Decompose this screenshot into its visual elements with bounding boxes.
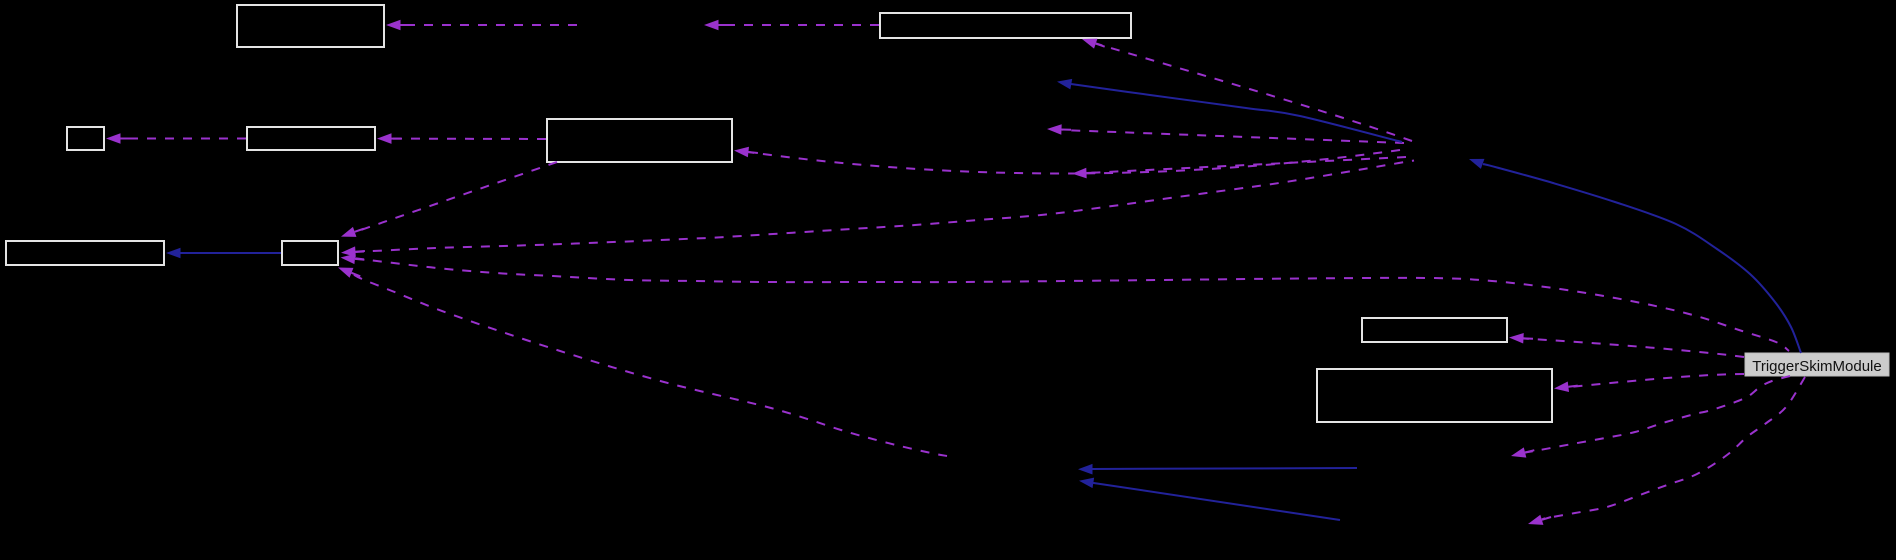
edge TSM to node6 (dashed) — [1510, 376, 1790, 461]
node G box — [282, 241, 338, 265]
edge E to G (dashed) — [339, 162, 557, 242]
node F box — [6, 241, 164, 265]
node I box — [1317, 369, 1552, 422]
edge D to C (dashed) — [106, 133, 246, 144]
edge TSM to hub (blue) — [1467, 154, 1801, 353]
node A box — [237, 5, 384, 47]
edge TSM to H (dashed) — [1509, 332, 1744, 357]
edge node10 to node9 (blue) — [1078, 475, 1340, 520]
edge B to node1 (dashed) — [704, 20, 879, 31]
edge node8 to node9 (blue) — [1078, 464, 1357, 475]
node D box — [247, 127, 375, 150]
edge hub to node2 (blue) — [1056, 76, 1402, 142]
edge hub to E (dashed) — [733, 145, 1400, 173]
edge TSM to G long (dashed) — [340, 252, 1789, 351]
edge TSM to node7 (dashed) — [1526, 377, 1805, 529]
edge E to D (dashed) — [377, 133, 546, 144]
edge hub to node4 (dashed) — [1072, 157, 1406, 179]
edge hub to B (dashed) — [1080, 34, 1412, 141]
node E box — [547, 119, 732, 162]
node TriggerSkimModule — [1745, 353, 1889, 376]
edge hub to G (dashed) — [341, 161, 1414, 258]
node H box — [1362, 318, 1507, 342]
edge node1 to A (dashed) — [386, 20, 577, 31]
node C box — [67, 127, 104, 150]
svg-text:TriggerSkimModule: TriggerSkimModule — [1752, 358, 1882, 375]
edge TSM to I (dashed) — [1553, 374, 1744, 394]
edge G to F (blue) — [166, 248, 281, 259]
edge node5 to G (dashed) — [336, 263, 947, 456]
edge hub to node3 (dashed) — [1047, 124, 1404, 143]
node B box — [880, 13, 1131, 38]
